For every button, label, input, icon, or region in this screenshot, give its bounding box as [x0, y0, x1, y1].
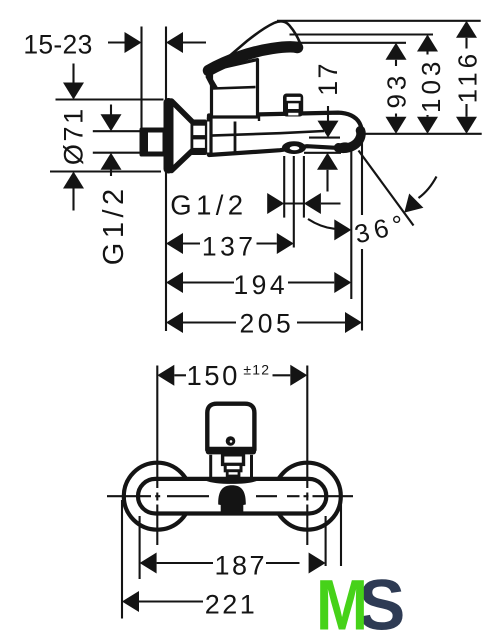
escutcheon cone (side view) [164, 98, 208, 174]
spout outlet lip [334, 141, 350, 152]
spout tip ref line [361, 133, 482, 135]
dim 187 extensions [139, 516, 141, 579]
36deg leader arcs [308, 219, 335, 229]
svg-text:15-23: 15-23 [23, 30, 92, 60]
capsule top dip under handle [206, 479, 257, 482]
arrows 150 [157, 365, 174, 386]
body mid crease line [211, 131, 324, 136]
svg-text:194: 194 [233, 270, 288, 300]
arrow 221 left [122, 591, 139, 612]
lever handle base block [212, 60, 258, 118]
height ref line 116 [277, 20, 481, 22]
shower outlet stub on body top [283, 94, 303, 117]
svg-text:G1/2: G1/2 [170, 190, 247, 221]
wall line left [140, 27, 142, 132]
arrows 137 [166, 233, 183, 254]
svg-text:116: 116 [453, 50, 483, 103]
svg-text:221: 221 [205, 590, 258, 620]
right centerline vertical [306, 366, 308, 489]
wall nipple G1/2 stub (side view) [143, 130, 165, 154]
neck outer skirt lines [211, 455, 252, 478]
lever handle thick band [209, 47, 298, 71]
dim 137 line [183, 242, 200, 244]
svg-text:±12: ±12 [243, 362, 270, 378]
arrows 194 [166, 272, 183, 293]
slit between nut and body [207, 122, 209, 153]
handle knob (front view) [207, 404, 254, 450]
arrow 36deg at ref line [334, 219, 351, 240]
lever handle dome outline [210, 21, 301, 73]
handle neck collars [223, 455, 244, 476]
left centerline vertical [156, 366, 158, 489]
arrows G1/2 left [101, 114, 122, 131]
dim 187 line [157, 562, 213, 564]
36deg angle line [359, 151, 414, 226]
116 stems [465, 38, 467, 49]
diverter knob dark blob (front view) [218, 485, 246, 515]
svg-text:17: 17 [313, 61, 343, 96]
svg-text:137: 137 [202, 232, 257, 262]
body collar line [234, 122, 237, 153]
svg-text:Ø71: Ø71 [58, 106, 88, 165]
arrow 36deg at angle line [404, 194, 423, 213]
dim 205 line [183, 321, 236, 323]
svg-text:36°: 36° [352, 208, 412, 249]
svg-text:93: 93 [381, 72, 411, 109]
spout tip dark crescent [339, 131, 362, 149]
height ref line 93 [292, 42, 406, 44]
dim line Fl71 bottom [50, 170, 161, 172]
dim 221 line [139, 600, 203, 602]
left escutcheon circle (front view) [124, 463, 191, 530]
knob dot [226, 436, 236, 446]
arrows 93 [386, 43, 407, 60]
svg-text:187: 187 [215, 550, 268, 580]
faucet body and spout (side view) [209, 113, 362, 155]
arrows Fl71 [63, 83, 84, 100]
arrows 15-23 [125, 32, 142, 53]
arrows 17 [318, 121, 339, 138]
dim 194 extension [350, 147, 352, 299]
svg-text:G1/2: G1/2 [98, 184, 130, 265]
dim 150 line [174, 374, 186, 376]
arrows 116 [456, 21, 477, 38]
arrows 187 [140, 553, 157, 574]
dim 205 extension [361, 134, 363, 215]
height ref line 103 [290, 33, 434, 35]
dim 221 extensions [121, 500, 123, 619]
svg-text:150: 150 [187, 360, 240, 391]
G1/2 stub extent lines [93, 130, 140, 132]
right escutcheon circle (front view) [274, 463, 341, 530]
arrows 103 [417, 35, 438, 52]
G1/2 left stems [110, 105, 112, 115]
body capsule (front view) [138, 479, 326, 514]
svg-text:205: 205 [240, 309, 295, 339]
aerator G1/2 dim [283, 156, 285, 218]
dim line Fl71 top [56, 98, 164, 100]
wall line right [165, 27, 167, 332]
Fl71 stems [72, 64, 74, 84]
dim 194 line [183, 281, 234, 283]
93 stems [395, 60, 397, 66]
arrows aerator G1/2 [267, 193, 284, 214]
arrows 205 [166, 312, 183, 333]
svg-text:M: M [316, 566, 368, 640]
svg-text:103: 103 [416, 58, 446, 113]
17 dim stems and lines [327, 106, 329, 121]
dim 15-23 lines [108, 41, 126, 43]
aerator / outlet (side view) [282, 141, 306, 154]
103 stems [426, 52, 428, 55]
horizontal centerline [107, 495, 151, 497]
